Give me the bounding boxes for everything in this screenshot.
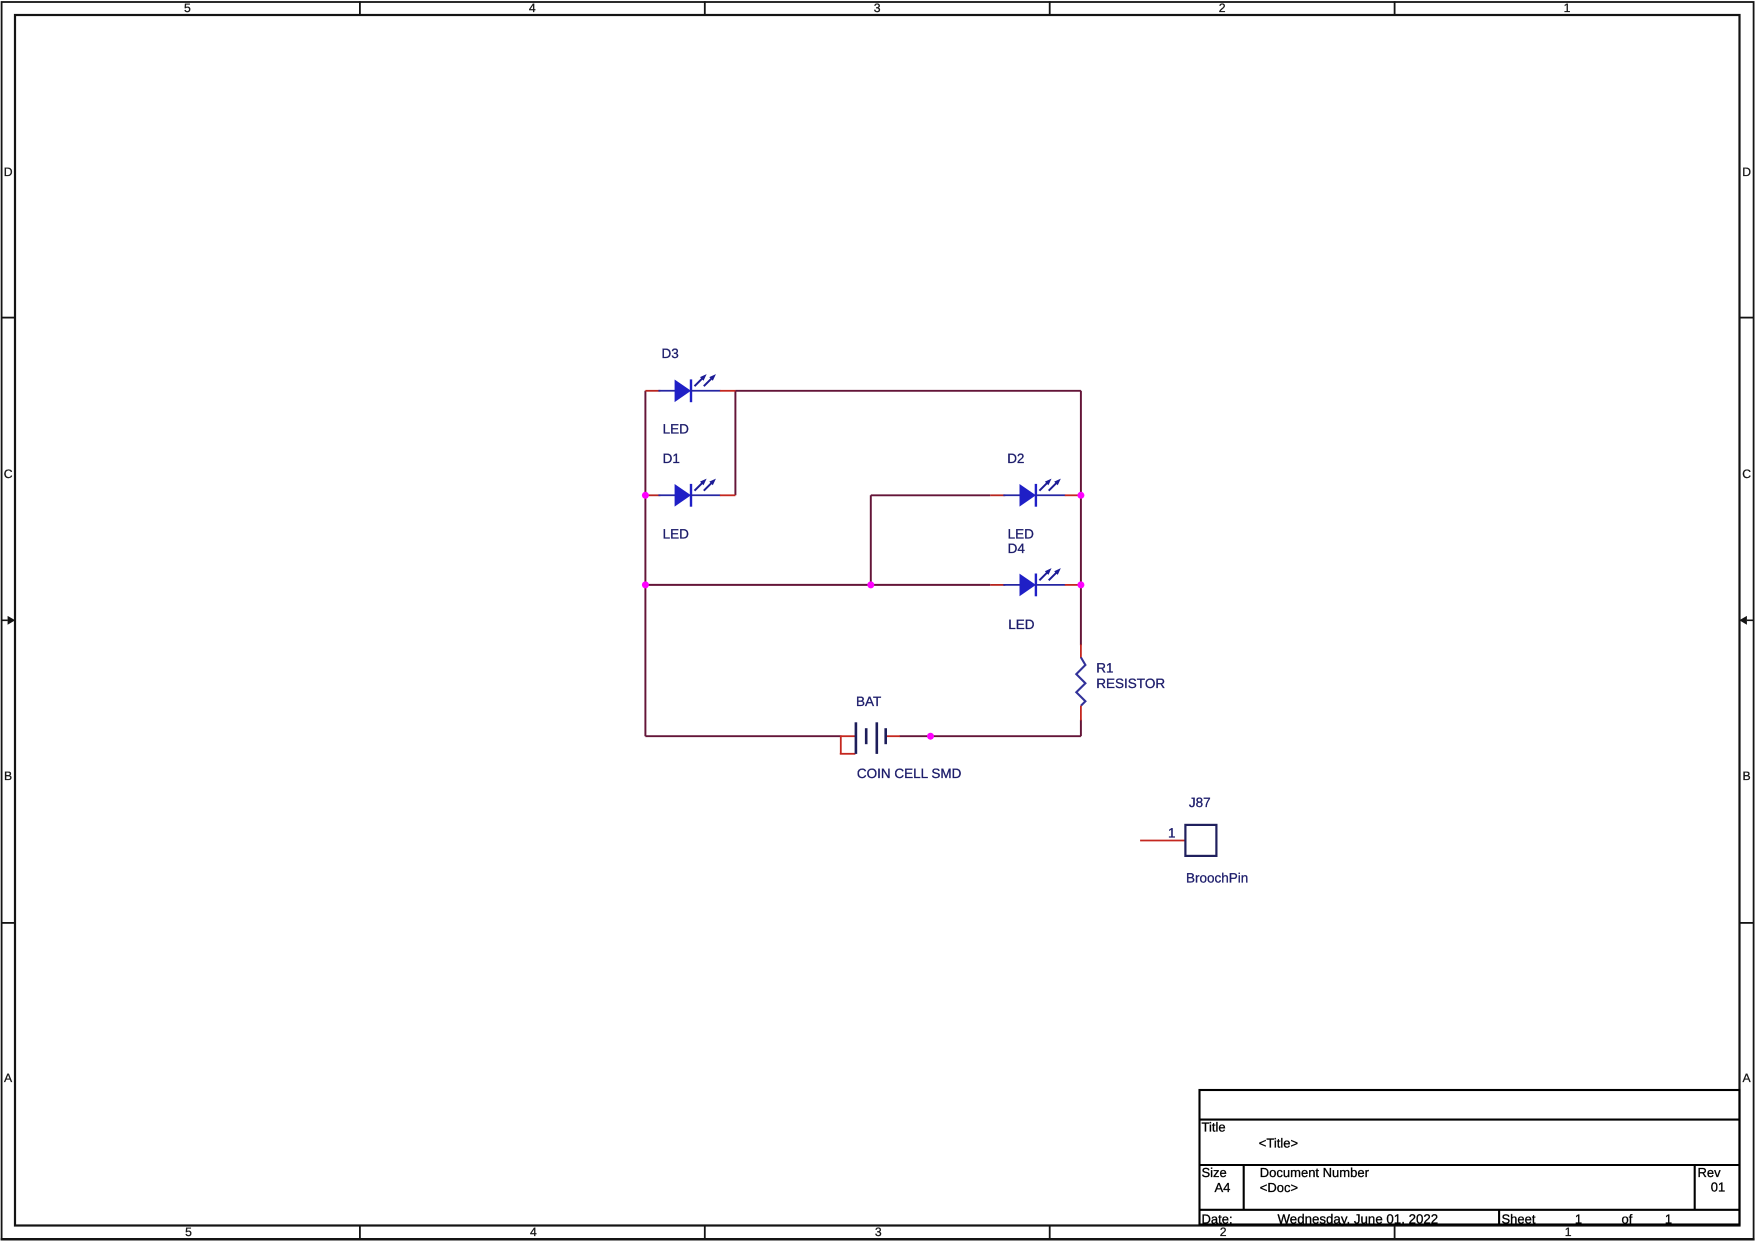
svg-text:D: D [1742,165,1751,179]
svg-text:4: 4 [529,1,536,15]
svg-text:A: A [4,1071,13,1085]
svg-text:BroochPin: BroochPin [1186,870,1248,885]
svg-text:A: A [1743,1071,1752,1085]
svg-text:2: 2 [1219,1,1226,15]
svg-text:B: B [4,769,12,783]
svg-text:1: 1 [1665,1211,1672,1226]
svg-text:4: 4 [530,1225,537,1239]
svg-text:LED: LED [1008,527,1035,542]
svg-text:D1: D1 [663,451,680,466]
svg-text:2: 2 [1220,1225,1227,1239]
svg-text:D2: D2 [1007,451,1024,466]
svg-text:Size: Size [1202,1165,1227,1180]
svg-text:Document Number: Document Number [1260,1165,1370,1180]
svg-text:LED: LED [1008,617,1035,632]
svg-text:BAT: BAT [856,694,881,709]
svg-text:1: 1 [1564,1,1571,15]
svg-text:J87: J87 [1189,795,1211,810]
svg-text:3: 3 [874,1,881,15]
svg-text:5: 5 [185,1225,192,1239]
svg-text:C: C [4,467,13,481]
svg-text:D: D [4,165,13,179]
svg-text:1: 1 [1168,825,1176,840]
svg-text:D3: D3 [662,346,679,361]
svg-text:Sheet: Sheet [1502,1211,1536,1226]
svg-text:Date:: Date: [1202,1211,1233,1226]
svg-text:D4: D4 [1008,541,1026,556]
svg-text:LED: LED [663,527,690,542]
svg-text:R1: R1 [1096,661,1113,676]
svg-text:Rev: Rev [1698,1165,1722,1180]
svg-text:1: 1 [1575,1211,1582,1226]
svg-text:Wednesday, June 01, 2022: Wednesday, June 01, 2022 [1278,1211,1439,1226]
svg-text:<Title>: <Title> [1259,1135,1298,1150]
svg-text:COIN CELL SMD: COIN CELL SMD [857,766,962,781]
svg-text:C: C [1742,467,1751,481]
svg-text:A4: A4 [1215,1180,1231,1195]
svg-text:LED: LED [663,421,690,436]
svg-text:of: of [1622,1211,1633,1226]
svg-text:<Doc>: <Doc> [1260,1180,1298,1195]
svg-text:01: 01 [1711,1180,1725,1195]
svg-text:1: 1 [1565,1225,1572,1239]
svg-text:3: 3 [875,1225,882,1239]
svg-text:Title: Title [1202,1120,1226,1135]
svg-text:RESISTOR: RESISTOR [1096,676,1165,691]
svg-text:B: B [1743,769,1751,783]
svg-text:5: 5 [184,1,191,15]
